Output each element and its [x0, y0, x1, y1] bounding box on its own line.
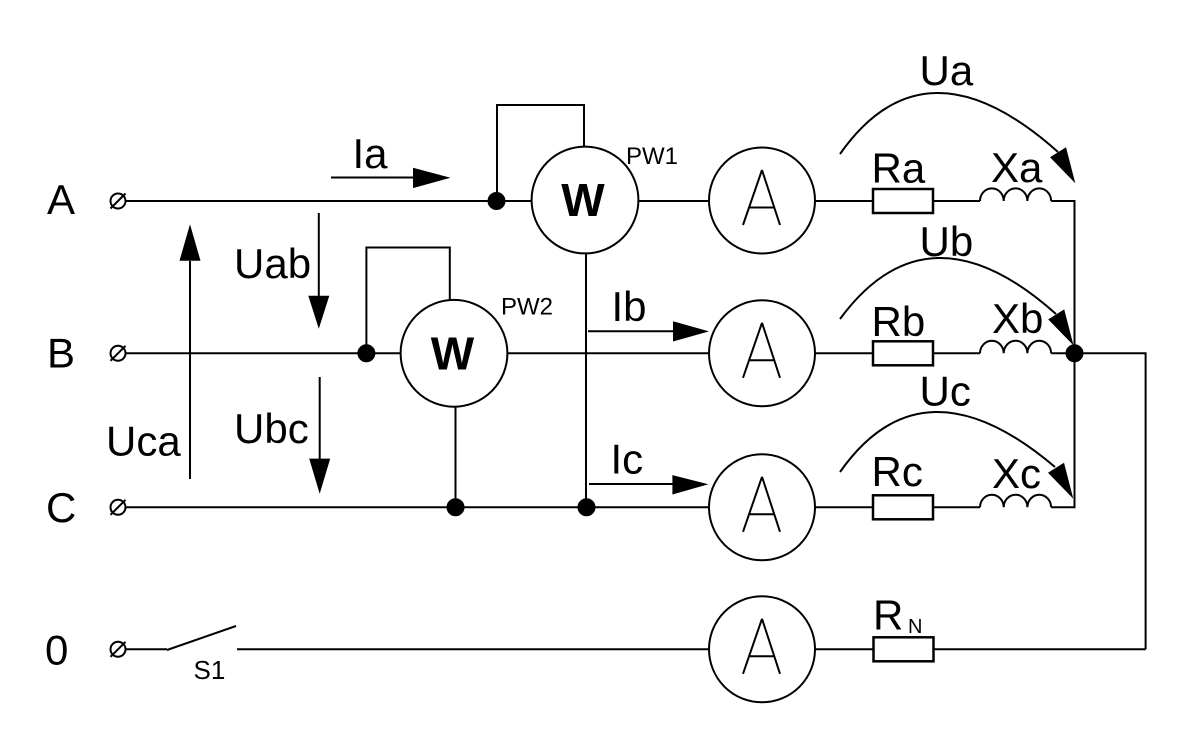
svg-text:W: W — [431, 328, 475, 380]
wire Rb to Xb — [933, 352, 980, 354]
inductor Xb — [980, 341, 1051, 354]
svg-text:W: W — [561, 174, 605, 226]
node star junction dot — [1067, 345, 1083, 361]
svg-text:Ic: Ic — [611, 436, 644, 483]
node junction dot on B — [358, 345, 374, 361]
wire Ic arrow — [589, 475, 708, 494]
switch S1 blade — [167, 626, 236, 650]
wire Ubc arrow — [309, 377, 330, 494]
wire Uc curved arrow — [840, 412, 1073, 499]
inductor Xa — [980, 188, 1051, 201]
wire Xa to right corner down to star — [1051, 201, 1074, 353]
wire A PW1 to ammeter — [638, 200, 709, 202]
svg-text:Ubc: Ubc — [234, 405, 309, 452]
svg-text:Ua: Ua — [920, 47, 974, 94]
svg-text:Xb: Xb — [992, 295, 1043, 342]
wire star to right riser — [1082, 353, 1146, 649]
terminal 0 — [111, 642, 126, 657]
wire Ib arrow — [588, 321, 709, 341]
wire Ua curved arrow — [840, 93, 1075, 183]
wire PW1 voltage loop — [497, 105, 584, 200]
wire RN to right riser — [934, 648, 1146, 650]
wire Xb to star node — [1051, 352, 1074, 354]
ammeter PA3 glyph A — [743, 477, 780, 532]
svg-text:Rb: Rb — [872, 298, 926, 345]
wire Uca arrow — [180, 224, 201, 479]
wire Rc to Xc — [933, 506, 980, 508]
wire B PW2 to ammeter — [507, 352, 709, 354]
svg-text:N: N — [908, 616, 922, 638]
terminal C — [111, 500, 126, 515]
wire 0 to ammeter — [237, 648, 709, 650]
wire Uab arrow — [308, 213, 329, 329]
wire C terminal to ammeter — [126, 506, 709, 508]
label RN — [873, 592, 922, 639]
svg-text:Uc: Uc — [920, 368, 971, 415]
op-amp PW1 wattmeter circle — [532, 147, 639, 254]
wire B terminal to PW2 — [126, 352, 401, 354]
resistor Ra — [873, 189, 933, 213]
wire 0 ammeter to RN — [815, 648, 873, 650]
svg-text:Rc: Rc — [872, 448, 923, 495]
ammeter PA1 circle — [709, 148, 815, 254]
svg-text:R: R — [873, 592, 903, 639]
wire B ammeter to Rb — [815, 352, 873, 354]
svg-text:Uca: Uca — [106, 418, 181, 465]
svg-text:Ra: Ra — [872, 145, 926, 192]
wire Ra to Xa — [933, 200, 980, 202]
terminal A — [111, 194, 126, 209]
ammeter PA4 circle — [709, 596, 815, 702]
ammeter PA4 glyph A — [743, 619, 780, 674]
ammeter PA2 glyph A — [743, 323, 780, 378]
wire Ub curved arrow — [840, 258, 1074, 345]
svg-text:0: 0 — [45, 627, 68, 674]
wire C ammeter to Rc — [815, 506, 873, 508]
resistor Rb — [873, 341, 933, 365]
svg-text:PW2: PW2 — [501, 294, 553, 321]
svg-text:C: C — [46, 484, 76, 531]
resistor RN — [874, 637, 934, 661]
op-amp PW2 wattmeter circle — [401, 300, 508, 407]
wire PW1 bottom to line C — [585, 253, 587, 507]
terminal B — [111, 346, 126, 361]
ammeter PA3 circle — [709, 454, 815, 560]
resistor Rc — [873, 495, 933, 519]
wire A from terminal to PW1 — [126, 200, 532, 202]
svg-text:Ib: Ib — [612, 283, 647, 330]
node junction dot C2 — [579, 499, 595, 515]
svg-text:PW1: PW1 — [626, 143, 678, 170]
wire A ammeter to Ra — [815, 200, 873, 202]
wire PW2 voltage loop — [366, 248, 449, 353]
node junction dot C1 — [448, 499, 464, 515]
wire PW2 bottom to line C — [455, 407, 457, 508]
inductor Xc — [980, 495, 1051, 508]
ammeter PA1 glyph A — [743, 170, 780, 225]
svg-text:Uab: Uab — [234, 240, 311, 287]
wire Ia arrow — [331, 168, 451, 188]
svg-text:S1: S1 — [194, 655, 226, 685]
wire Xc to corner up to star — [1051, 353, 1074, 507]
svg-text:B: B — [47, 330, 75, 377]
svg-text:Ia: Ia — [353, 130, 389, 177]
svg-text:Xa: Xa — [991, 144, 1043, 191]
svg-text:Xc: Xc — [992, 450, 1041, 497]
node junction dot on A — [489, 193, 505, 209]
wire 0 stub — [126, 648, 167, 650]
ammeter PA2 circle — [709, 300, 815, 406]
svg-text:A: A — [47, 176, 75, 223]
